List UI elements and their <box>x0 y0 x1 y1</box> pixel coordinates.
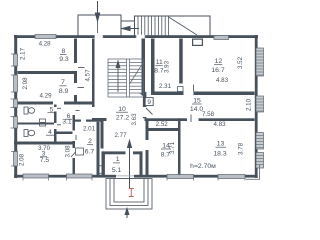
svg-text:3.08: 3.08 <box>65 145 72 158</box>
svg-text:6.7: 6.7 <box>85 149 95 156</box>
svg-text:3.78: 3.78 <box>238 142 245 155</box>
svg-text:8.7: 8.7 <box>154 68 164 75</box>
svg-text:2.17: 2.17 <box>20 47 27 60</box>
svg-text:3.1: 3.1 <box>62 119 72 126</box>
svg-text:8: 8 <box>62 48 66 55</box>
svg-text:7.5: 7.5 <box>40 157 50 164</box>
svg-text:18.3: 18.3 <box>213 151 226 158</box>
svg-text:13: 13 <box>217 141 225 148</box>
svg-text:h=2.70м: h=2.70м <box>190 163 216 170</box>
svg-text:11: 11 <box>156 59 163 66</box>
svg-text:2.08: 2.08 <box>22 77 29 90</box>
svg-text:2.01: 2.01 <box>83 126 96 133</box>
svg-text:7: 7 <box>61 79 65 86</box>
svg-text:2.10: 2.10 <box>246 98 253 111</box>
svg-text:7.58: 7.58 <box>202 111 215 118</box>
svg-text:1: 1 <box>116 156 120 163</box>
svg-text:3.71: 3.71 <box>169 141 176 154</box>
svg-text:9: 9 <box>147 99 151 106</box>
svg-text:2.52: 2.52 <box>156 121 169 128</box>
svg-text:3.70: 3.70 <box>38 145 51 152</box>
svg-text:8.9: 8.9 <box>59 88 69 95</box>
svg-text:4.83: 4.83 <box>216 77 229 84</box>
svg-text:4.29: 4.29 <box>39 93 52 100</box>
svg-text:3.52: 3.52 <box>237 56 244 69</box>
svg-text:3.63: 3.63 <box>131 113 138 126</box>
svg-text:5.1: 5.1 <box>112 167 122 174</box>
svg-text:27.2: 27.2 <box>116 115 129 122</box>
svg-text:15: 15 <box>193 98 201 105</box>
svg-text:16.7: 16.7 <box>211 67 224 74</box>
svg-text:2.08: 2.08 <box>19 153 26 166</box>
svg-text:2.77: 2.77 <box>114 132 127 139</box>
svg-text:12: 12 <box>215 58 223 65</box>
svg-text:4.28: 4.28 <box>39 41 52 48</box>
svg-text:4.57: 4.57 <box>85 69 92 82</box>
svg-text:2: 2 <box>88 138 92 145</box>
svg-text:3.93: 3.93 <box>164 60 171 73</box>
svg-text:2.31: 2.31 <box>159 83 172 90</box>
svg-text:4.83: 4.83 <box>213 121 226 128</box>
svg-text:9.3: 9.3 <box>59 56 69 63</box>
